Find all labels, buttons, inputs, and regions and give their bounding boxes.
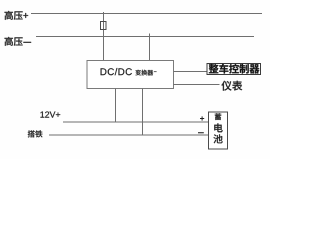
return mark after 变换器 [154,70,157,73]
label DC/DC [101,68,132,75]
label 变换器 [136,70,154,76]
wire HV- to converter [149,34,151,61]
label 搭铁 (ground) [28,130,43,137]
wire ground drop from converter [142,89,144,136]
label HV+ 高压+ [5,11,29,20]
battery - terminal mark [198,132,204,133]
wire HV+ bus [31,13,262,15]
vehicle controller box 整车控制器 [207,64,261,75]
battery box 蓄电池 [209,112,228,149]
wire ground bus to battery [49,134,209,136]
wire converter to vehicle controller [174,71,208,73]
label 电 [214,123,222,132]
wire HV- bus [36,36,254,38]
label HV- 高压— [5,37,32,46]
wire fuse drop (HV+ to converter) [103,12,105,61]
label 整车控制器 [209,64,260,74]
wire 12V+ bus to battery [63,121,209,123]
label 蓄 [215,113,221,120]
DC/DC converter box [87,61,174,89]
fuse F1 [101,22,107,30]
label 仪表 [222,81,243,91]
battery + terminal mark [200,116,204,120]
wire converter to instrument 仪表 [174,84,220,86]
label 池 [214,134,223,143]
label 12V+ [41,112,61,118]
wire 12V+ drop from converter [115,89,117,123]
